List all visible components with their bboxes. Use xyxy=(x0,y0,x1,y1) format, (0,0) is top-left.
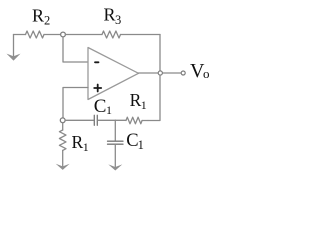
label R2 xyxy=(32,6,50,28)
svg-text:Vo: Vo xyxy=(190,60,209,82)
op-amp U1 xyxy=(88,48,139,100)
capacitor C1 (series) xyxy=(65,115,115,125)
svg-text:R3: R3 xyxy=(104,5,122,28)
svg-text:C1: C1 xyxy=(94,96,112,117)
output wire xyxy=(139,72,181,74)
label C1 (series) xyxy=(94,96,112,117)
svg-text:C1: C1 xyxy=(126,131,144,152)
svg-text:R2: R2 xyxy=(32,6,50,28)
wire output node down to R1 branch xyxy=(148,76,160,121)
resistor R1 (vertical) xyxy=(59,123,66,166)
resistor R3 xyxy=(66,31,161,38)
wire non-inverting input to node B xyxy=(63,88,88,119)
label R1 (vertical) xyxy=(72,132,89,154)
ground (bottom-left) xyxy=(56,164,70,170)
wire node A to inverting input xyxy=(63,37,88,62)
label R3 xyxy=(104,5,122,28)
capacitor C1 (shunt) xyxy=(108,120,124,166)
label R1 (horizontal) xyxy=(130,90,147,112)
node A (R2/R3 junction) xyxy=(61,32,66,37)
svg-text:R1: R1 xyxy=(130,90,147,112)
resistor R1 (horizontal) xyxy=(126,117,148,124)
node output xyxy=(158,71,162,75)
terminal Vo xyxy=(181,71,185,75)
ground (bottom-middle) xyxy=(108,164,122,170)
ground (top-left) xyxy=(7,35,21,61)
label C1 (shunt) xyxy=(126,131,144,152)
wire R3 to output node (right feedback drop) xyxy=(159,35,161,71)
svg-text:R1: R1 xyxy=(72,132,89,154)
resistor R2 xyxy=(14,31,61,38)
label Vo xyxy=(190,60,209,82)
node B xyxy=(60,118,65,123)
wire junction to R1 (horizontal) xyxy=(116,119,127,121)
